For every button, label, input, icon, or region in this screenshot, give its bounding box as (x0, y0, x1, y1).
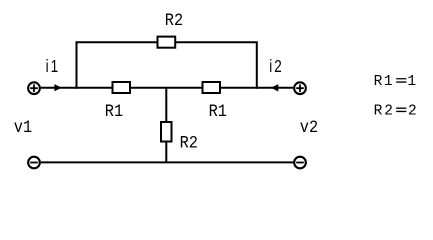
svg-text:v1: v1 (14, 118, 32, 138)
svg-text:R1: R1 (105, 102, 123, 122)
svg-text:R1: R1 (374, 74, 393, 90)
svg-text:R2: R2 (374, 104, 393, 120)
svg-text:v2: v2 (300, 118, 318, 138)
svg-text:1: 1 (407, 74, 416, 90)
svg-text:R2: R2 (180, 133, 198, 153)
svg-text:R2: R2 (165, 11, 183, 31)
svg-text:i1: i1 (46, 57, 61, 76)
svg-text:2: 2 (408, 104, 417, 120)
svg-text:R1: R1 (209, 102, 227, 122)
svg-text:i2: i2 (269, 57, 284, 76)
